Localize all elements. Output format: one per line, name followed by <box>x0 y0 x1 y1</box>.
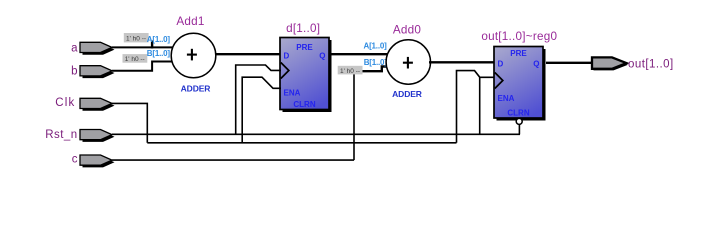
wire Clk pin to clock rail <box>112 103 147 142</box>
svg-text:c: c <box>72 153 78 165</box>
flipflop d[1..0] body <box>280 38 329 110</box>
wire out reg Q to output pin <box>546 62 593 64</box>
output pin out[1..0] <box>592 57 628 70</box>
op Add0 adder circle <box>386 40 430 84</box>
svg-text:A[1..0]: A[1..0] <box>147 35 171 44</box>
wire constant stub into a bus <box>151 41 153 49</box>
svg-text:CLRN: CLRN <box>293 100 315 109</box>
svg-text:out[1..0]: out[1..0] <box>628 58 674 70</box>
svg-text:1' h0 --: 1' h0 -- <box>125 56 145 63</box>
svg-text:ADDER: ADDER <box>392 89 422 99</box>
flipflop out[1..0]~reg0 shadow <box>497 49 546 121</box>
op Add1 adder circle <box>171 33 216 78</box>
svg-text:B[1..0]: B[1..0] <box>147 49 171 58</box>
svg-text:A[1..0]: A[1..0] <box>364 41 388 50</box>
svg-text:CLRN: CLRN <box>507 109 529 118</box>
wire d Q to Add0 A input <box>332 53 389 55</box>
svg-text:b: b <box>71 66 78 78</box>
svg-text:Q: Q <box>319 52 325 61</box>
svg-text:D: D <box>284 52 290 61</box>
svg-text:Q: Q <box>533 60 539 69</box>
svg-text:B[1..0]: B[1..0] <box>364 58 388 67</box>
wire clock rail to out reg clock <box>457 71 495 143</box>
wire Add1 output to d[1..0] D input <box>215 53 281 55</box>
svg-text:Clk: Clk <box>55 97 75 109</box>
svg-text:Rst_n: Rst_n <box>45 129 77 141</box>
svg-text:Add0: Add0 <box>393 24 422 37</box>
input pin a <box>80 42 115 54</box>
svg-text:ENA: ENA <box>498 94 515 103</box>
svg-text:1' h0 --: 1' h0 -- <box>340 68 360 75</box>
input pin b <box>80 66 115 78</box>
svg-text:d[1..0]: d[1..0] <box>286 22 320 35</box>
input pin Rst_n <box>80 130 115 142</box>
constant label 1'h0 on net c <box>338 66 363 75</box>
clock rail <box>147 142 456 144</box>
wire c rail up to Add0 B input <box>353 71 355 160</box>
svg-text:out[1..0]~reg0: out[1..0]~reg0 <box>481 30 557 43</box>
svg-text:D: D <box>498 60 504 69</box>
plus sign of Add1 <box>187 54 197 56</box>
CLRN inverter bubble <box>516 118 522 124</box>
svg-text:Add1: Add1 <box>176 15 204 28</box>
wire Add0 output to out reg D input <box>429 61 495 63</box>
Rst_n rail <box>112 133 520 135</box>
wire a to Add1 A input <box>112 46 174 48</box>
svg-text:1' h0 --: 1' h0 -- <box>126 36 146 43</box>
svg-text:a: a <box>71 43 78 55</box>
svg-text:ADDER: ADDER <box>181 83 211 93</box>
clock chevron of d <box>281 63 289 79</box>
wire b to Add1 B input <box>112 62 172 71</box>
svg-text:PRE: PRE <box>296 43 313 52</box>
flipflop d[1..0] shadow <box>283 40 332 112</box>
wire riser to d clock <box>236 65 281 134</box>
svg-text:PRE: PRE <box>510 49 527 58</box>
wire riser to d ENA <box>242 77 281 143</box>
flipflop out[1..0]~reg0 body <box>494 47 543 119</box>
wire branch down from out reg clock corner <box>479 77 481 134</box>
input pin Clk <box>80 98 115 110</box>
constant label 1'h0 on net b <box>123 54 148 63</box>
plus sign of Add0 <box>403 62 413 64</box>
constant label 1'h0 on net a <box>124 33 149 43</box>
input pin c <box>80 155 115 167</box>
c rail <box>112 159 354 161</box>
clock chevron of out reg <box>495 73 503 89</box>
wire Rst_n rail to CLRN bubble <box>518 124 520 134</box>
svg-text:ENA: ENA <box>284 88 301 97</box>
